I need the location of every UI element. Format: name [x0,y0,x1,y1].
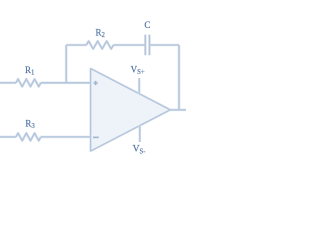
svg-text:R1: R1 [25,65,34,77]
svg-text:R2: R2 [96,27,106,39]
svg-text:C: C [144,20,150,30]
svg-text:VS+: VS+ [131,64,145,76]
svg-text:R3: R3 [25,118,35,130]
svg-text:VS-: VS- [133,144,147,156]
